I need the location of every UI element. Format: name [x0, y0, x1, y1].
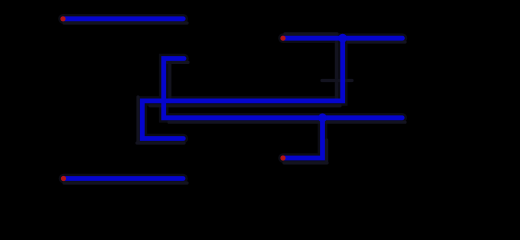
compression halo accents: [64, 23, 405, 183]
open-end dot at W1 left: [60, 16, 65, 21]
wire net N1: stub, vertical V1, long horizontal H2: [164, 59, 403, 118]
compression casing around all wires: [63, 19, 402, 179]
open-end dot at N3 hook end: [280, 155, 285, 160]
junction J2 on H2: [318, 113, 327, 122]
junction J1 on W3: [338, 34, 347, 43]
wire W1 (top-left net): [63, 16, 183, 21]
open-end dot at W3 left: [280, 36, 285, 41]
wire net N3: hook from junction on H2 down-left: [283, 118, 323, 158]
wire W3 (top-right horizontal): [283, 36, 402, 41]
wire net N2: drop from junction, horizontal H1, vertical V2, bottom stub H3: [142, 38, 342, 138]
open-end dot at W2 left: [61, 176, 66, 181]
wire W2 (bottom-left net): [64, 176, 184, 181]
